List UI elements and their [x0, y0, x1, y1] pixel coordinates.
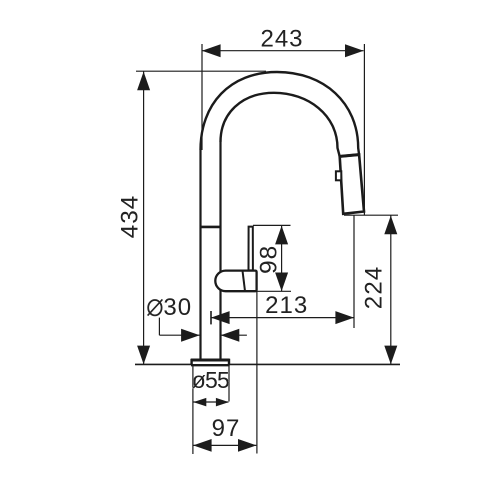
svg-text:243: 243 — [260, 25, 303, 52]
svg-text:97: 97 — [212, 415, 241, 442]
dim 213: dimension line — [211, 317, 354, 319]
dim 224: top extension line — [344, 214, 398, 216]
dim ø55: dimension line — [193, 401, 228, 403]
svg-text:30: 30 — [163, 294, 192, 321]
dim ø30: leader vertical connector — [158, 318, 160, 336]
dim 97: dimension line — [193, 444, 256, 446]
handle lever — [249, 227, 253, 271]
faucet body: riser pipe left edge — [199, 150, 201, 360]
dim ø30: label — [148, 294, 193, 321]
counter / mounting surface line — [135, 363, 400, 365]
dim 98: top extension line — [253, 224, 291, 226]
dim 98: dimension line — [281, 225, 283, 291]
riser pipe joint line — [200, 226, 222, 229]
dim 98: bottom arrowhead — [275, 273, 288, 292]
handle housing joint line — [243, 272, 245, 291]
svg-text:224: 224 — [361, 266, 388, 310]
spray head divider (top edge, thick) — [339, 155, 360, 157]
base plate bottom edge thick — [191, 364, 230, 366]
gooseneck spout outer curve — [201, 72, 360, 155]
dim 213: right extension line — [353, 216, 355, 329]
dim 434: top extension line — [136, 70, 266, 72]
dim 243: left extension line — [201, 44, 203, 150]
dim 213: right arrowhead — [335, 311, 354, 324]
dim 434: top arrowhead — [137, 72, 150, 91]
dim 434: dimension line — [143, 71, 145, 364]
dim ø55: right extension line — [228, 365, 230, 402]
base plate top edge thick — [191, 359, 230, 362]
dim 434: bottom arrowhead — [137, 346, 150, 365]
dim 224: dimension line — [390, 215, 392, 364]
dim 243: dimension line — [202, 50, 364, 52]
dim ø30: right arrowhead — [221, 329, 240, 342]
dim 97: right arrowhead — [238, 439, 256, 452]
dim 224: bottom arrowhead — [384, 346, 397, 365]
dim 224: top arrowhead — [384, 216, 397, 235]
dim 213: left tick — [210, 311, 212, 324]
dim 243: right extension line — [363, 44, 365, 215]
svg-text:98: 98 — [256, 245, 283, 274]
dim ø30: right tail line — [221, 334, 247, 336]
base plate — [192, 360, 229, 364]
dim 213: left arrowhead — [211, 311, 230, 324]
faucet body: riser pipe right edge — [219, 142, 221, 360]
spray head button — [336, 171, 341, 180]
svg-text:213: 213 — [265, 292, 308, 319]
dim 243: right arrowhead — [345, 44, 364, 57]
svg-text:ø55: ø55 — [192, 367, 229, 393]
dim 97: right extension line — [256, 291, 258, 453]
dim ø55: right arrowhead — [216, 398, 229, 407]
pull-out spray head body — [340, 155, 364, 214]
handle housing (pill) — [215, 271, 256, 292]
dim 97: left arrowhead — [193, 439, 211, 452]
svg-text:434: 434 — [117, 195, 144, 239]
dim ø30: left arrowhead — [181, 329, 200, 342]
dim ø55: left arrowhead — [193, 398, 206, 407]
dim ø55: left extension line (shared with 97) — [192, 365, 194, 455]
gooseneck spout inner curve — [221, 93, 340, 157]
dim 98: top arrowhead — [275, 226, 288, 245]
dim 98: bottom extension line — [257, 290, 291, 292]
dim 243: left arrowhead — [202, 44, 221, 57]
dim ø30: leader horizontal line — [159, 334, 199, 336]
